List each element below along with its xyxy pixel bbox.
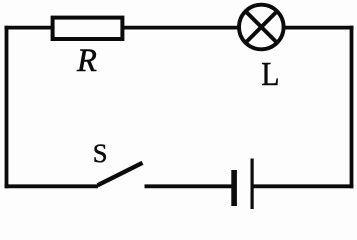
svg-text:R: R: [76, 43, 97, 79]
wire right vertical: [350, 26, 354, 189]
battery negative plate (short thick): [231, 170, 237, 206]
wire bottom-right segment (battery to corner): [254, 184, 354, 188]
switch S lever: [98, 163, 143, 186]
wire bottom-middle segment (switch contact to battery): [145, 184, 232, 188]
battery positive plate (long thin): [251, 159, 254, 210]
wire left vertical: [5, 26, 9, 189]
wire bottom-left segment (corner to switch pivot): [5, 184, 98, 188]
wire top-right segment (lamp to corner): [283, 26, 354, 30]
lamp L: [239, 5, 284, 50]
wire top-middle segment (resistor to lamp): [123, 26, 240, 30]
wire top-left segment: [5, 26, 53, 30]
resistor R: [53, 18, 123, 39]
svg-text:L: L: [261, 56, 279, 93]
svg-text:S: S: [93, 138, 108, 168]
